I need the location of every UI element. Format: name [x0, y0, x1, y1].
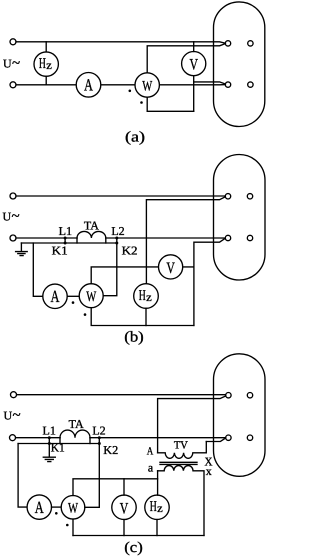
svg-text:TV: TV	[174, 440, 188, 452]
TA secondary link right (b)	[105, 238, 107, 243]
ground symbol (b)	[16, 252, 28, 256]
svg-text:(b): (b)	[124, 330, 144, 346]
label X (TV primary end)	[205, 454, 213, 468]
node K1 (b)	[64, 238, 67, 245]
ground riser (b)	[20, 243, 22, 251]
svg-text:z: z	[146, 290, 152, 304]
label U~ (a)	[3, 56, 20, 72]
label TV	[174, 440, 188, 452]
wire hot fork to Hz and V (b)	[146, 197, 225, 284]
polarity dot W current coil (b)	[72, 301, 75, 304]
wire V bottom lead (c)	[123, 520, 125, 536]
node L1 (c)	[48, 436, 51, 439]
wire W voltage-coil top (a)	[147, 44, 225, 73]
machine M1 (stadium outline)	[214, 2, 265, 127]
machine M1 terminal 2	[248, 41, 253, 46]
label L2 (c)	[92, 424, 105, 438]
frequency meter Hz (c)	[145, 495, 169, 519]
svg-text:(c): (c)	[124, 540, 143, 556]
label L2 (b)	[111, 224, 124, 238]
voltmeter V (b)	[159, 255, 183, 279]
machine M3 terminal 3	[226, 435, 231, 440]
TA secondary line K1-K2 (b)	[21, 242, 116, 244]
svg-text:H: H	[150, 499, 157, 515]
source terminal bottom (c)	[10, 435, 16, 441]
label K1 (b)	[52, 243, 68, 257]
node L2 (b)	[115, 237, 118, 240]
wire K1 to ammeter (b)	[33, 243, 43, 296]
wire V to machine neutral terminal (b)	[183, 238, 226, 325]
svg-text:A: A	[84, 76, 94, 95]
svg-text:x: x	[206, 464, 212, 478]
TA secondary link right (c)	[89, 438, 91, 444]
svg-text:V: V	[166, 260, 175, 277]
polarity dot W current coil (c)	[55, 512, 58, 515]
wire A to W (b)	[67, 295, 79, 297]
svg-text:TA: TA	[84, 219, 99, 233]
ammeter A (c)	[27, 495, 51, 519]
polarity dot W current coil (a)	[129, 90, 132, 93]
voltmeter V (a)	[182, 52, 206, 76]
wire neutral line left (c)	[16, 437, 60, 439]
wire neutral line right (b)	[106, 237, 226, 239]
wire K1 to ammeter (c)	[18, 444, 27, 508]
svg-text:A: A	[147, 445, 154, 457]
svg-text:W: W	[142, 78, 152, 94]
svg-text:z: z	[157, 501, 163, 515]
wattmeter W (a)	[135, 73, 159, 97]
label x (TV secondary end)	[206, 464, 212, 478]
svg-text:W: W	[68, 501, 78, 517]
wire hot line (c)	[17, 394, 226, 396]
label L1 (c)	[43, 424, 56, 438]
label A (TV primary start)	[147, 445, 154, 457]
TV core	[160, 462, 197, 464]
svg-text:TA: TA	[69, 417, 84, 431]
wire V top lead (c)	[123, 479, 125, 495]
svg-text:U~: U~	[4, 408, 21, 424]
svg-text:U~: U~	[3, 209, 20, 225]
label U~ (b)	[3, 209, 20, 225]
wattmeter W (c)	[61, 496, 85, 520]
wire hot line (a)	[16, 42, 225, 43]
svg-text:K2: K2	[122, 243, 138, 257]
ammeter A (a)	[76, 73, 101, 98]
svg-text:L1: L1	[59, 224, 72, 238]
svg-text:V: V	[189, 57, 198, 74]
frequency meter Hz (b)	[134, 284, 159, 309]
machine M2 (stadium outline)	[214, 155, 266, 281]
svg-text:H: H	[39, 56, 46, 72]
svg-text:H: H	[139, 288, 146, 304]
label L1 (b)	[59, 224, 72, 238]
machine M3 (stadium outline)	[214, 354, 266, 477]
wire hot fork to TV primary A (c)	[158, 396, 226, 453]
wire TV primary X to machine neutral terminal (c)	[206, 438, 225, 441]
machine M2 terminal 3	[225, 235, 230, 240]
svg-text:A: A	[35, 498, 45, 517]
node K1 (c)	[48, 438, 51, 445]
polarity dot W voltage coil (c)	[66, 524, 69, 527]
current transformer TA primary arcs (c)	[60, 430, 90, 438]
label a (TV secondary start)	[148, 461, 154, 475]
label K2 (b)	[122, 243, 138, 257]
wire W voltage-coil return (a)	[147, 97, 194, 111]
wire neutral line right (c)	[90, 437, 226, 439]
label TA (b)	[84, 219, 99, 233]
voltage transformer TV primary winding (c)	[158, 442, 207, 459]
caption (b)	[124, 330, 144, 346]
wire W voltage coil top to V (b)	[91, 267, 158, 284]
wire neutral line (a)	[16, 84, 225, 86]
svg-text:K1: K1	[51, 441, 65, 455]
caption (a)	[125, 130, 145, 146]
machine M3 terminal 2	[247, 393, 252, 398]
source terminal top (b)	[10, 193, 16, 199]
source terminal bottom (a)	[10, 82, 16, 88]
TA secondary link left (c)	[59, 438, 61, 444]
wire TV secondary a to bus and Hz (c)	[157, 471, 159, 495]
wattmeter W (b)	[79, 284, 103, 308]
svg-text:(a): (a)	[125, 130, 145, 146]
label K1 (c)	[51, 441, 65, 455]
ammeter A (b)	[43, 284, 67, 308]
svg-text:a: a	[148, 461, 154, 475]
source terminal bottom (b)	[10, 235, 16, 241]
current transformer TA primary arcs (b)	[77, 231, 106, 238]
voltmeter V (c)	[112, 495, 136, 519]
label K2 (c)	[103, 443, 118, 457]
machine M2 terminal 2	[247, 194, 252, 199]
wire voltage bus top (c)	[73, 479, 158, 496]
wire W bottom lead (c)	[72, 519, 74, 535]
caption (c)	[124, 540, 143, 556]
node L2 (c)	[98, 436, 101, 439]
polarity dot W voltage coil (a)	[140, 101, 143, 104]
label U~ (c)	[4, 408, 21, 424]
ground symbol (c)	[43, 457, 55, 461]
node L1 (b)	[64, 237, 67, 240]
svg-text:A: A	[51, 287, 61, 306]
svg-text:U~: U~	[3, 56, 20, 72]
machine M1 terminal 3	[225, 82, 230, 87]
wire K2 to W current coil (c)	[85, 438, 100, 508]
wire Hz top lead (a)	[45, 42, 47, 52]
wire W voltage return bottom (b)	[91, 308, 194, 326]
wire V junction to machine terminal (a)	[194, 82, 226, 84]
machine M1 terminal 4	[248, 82, 253, 87]
source terminal top (c)	[11, 392, 17, 398]
machine M1 terminal 1	[225, 41, 230, 46]
svg-text:V: V	[120, 500, 129, 517]
svg-text:W: W	[86, 289, 96, 305]
voltage transformer TV secondary winding (c)	[158, 466, 204, 536]
wire K2 to W current coil (b)	[103, 238, 117, 296]
node K2 (c)	[98, 442, 101, 445]
svg-text:K1: K1	[52, 243, 68, 257]
polarity dot W voltage coil (b)	[84, 313, 87, 316]
source terminal top (a)	[10, 39, 16, 45]
wire V bottom lead (a)	[193, 76, 195, 112]
frequency meter Hz (a)	[34, 52, 58, 76]
ground riser (c)	[48, 444, 50, 457]
wire V top lead (a)	[193, 42, 195, 52]
machine M3 terminal 4	[247, 435, 252, 440]
svg-text:L1: L1	[43, 424, 56, 438]
svg-text:L2: L2	[92, 424, 105, 438]
TA secondary line K1-K2 (c)	[18, 443, 99, 445]
wire neutral line left (b)	[16, 237, 77, 239]
TA secondary link left (b)	[76, 238, 78, 243]
svg-text:K2: K2	[103, 443, 118, 457]
svg-text:L2: L2	[111, 224, 124, 238]
wire Hz bottom lead (a)	[45, 76, 47, 85]
wire Hz bottom lead (c)	[156, 520, 158, 536]
node K2 (b)	[115, 242, 118, 245]
wire voltage bus bottom (c)	[73, 535, 204, 537]
label TA (c)	[69, 417, 84, 431]
wire A to W (c)	[52, 506, 62, 508]
machine M2 terminal 4	[247, 235, 252, 240]
svg-text:z: z	[46, 58, 52, 72]
machine M3 terminal 1	[226, 393, 231, 398]
wire hot line (b)	[16, 195, 225, 197]
wire Hz bottom lead (b)	[145, 308, 147, 325]
machine M2 terminal 1	[225, 194, 230, 199]
